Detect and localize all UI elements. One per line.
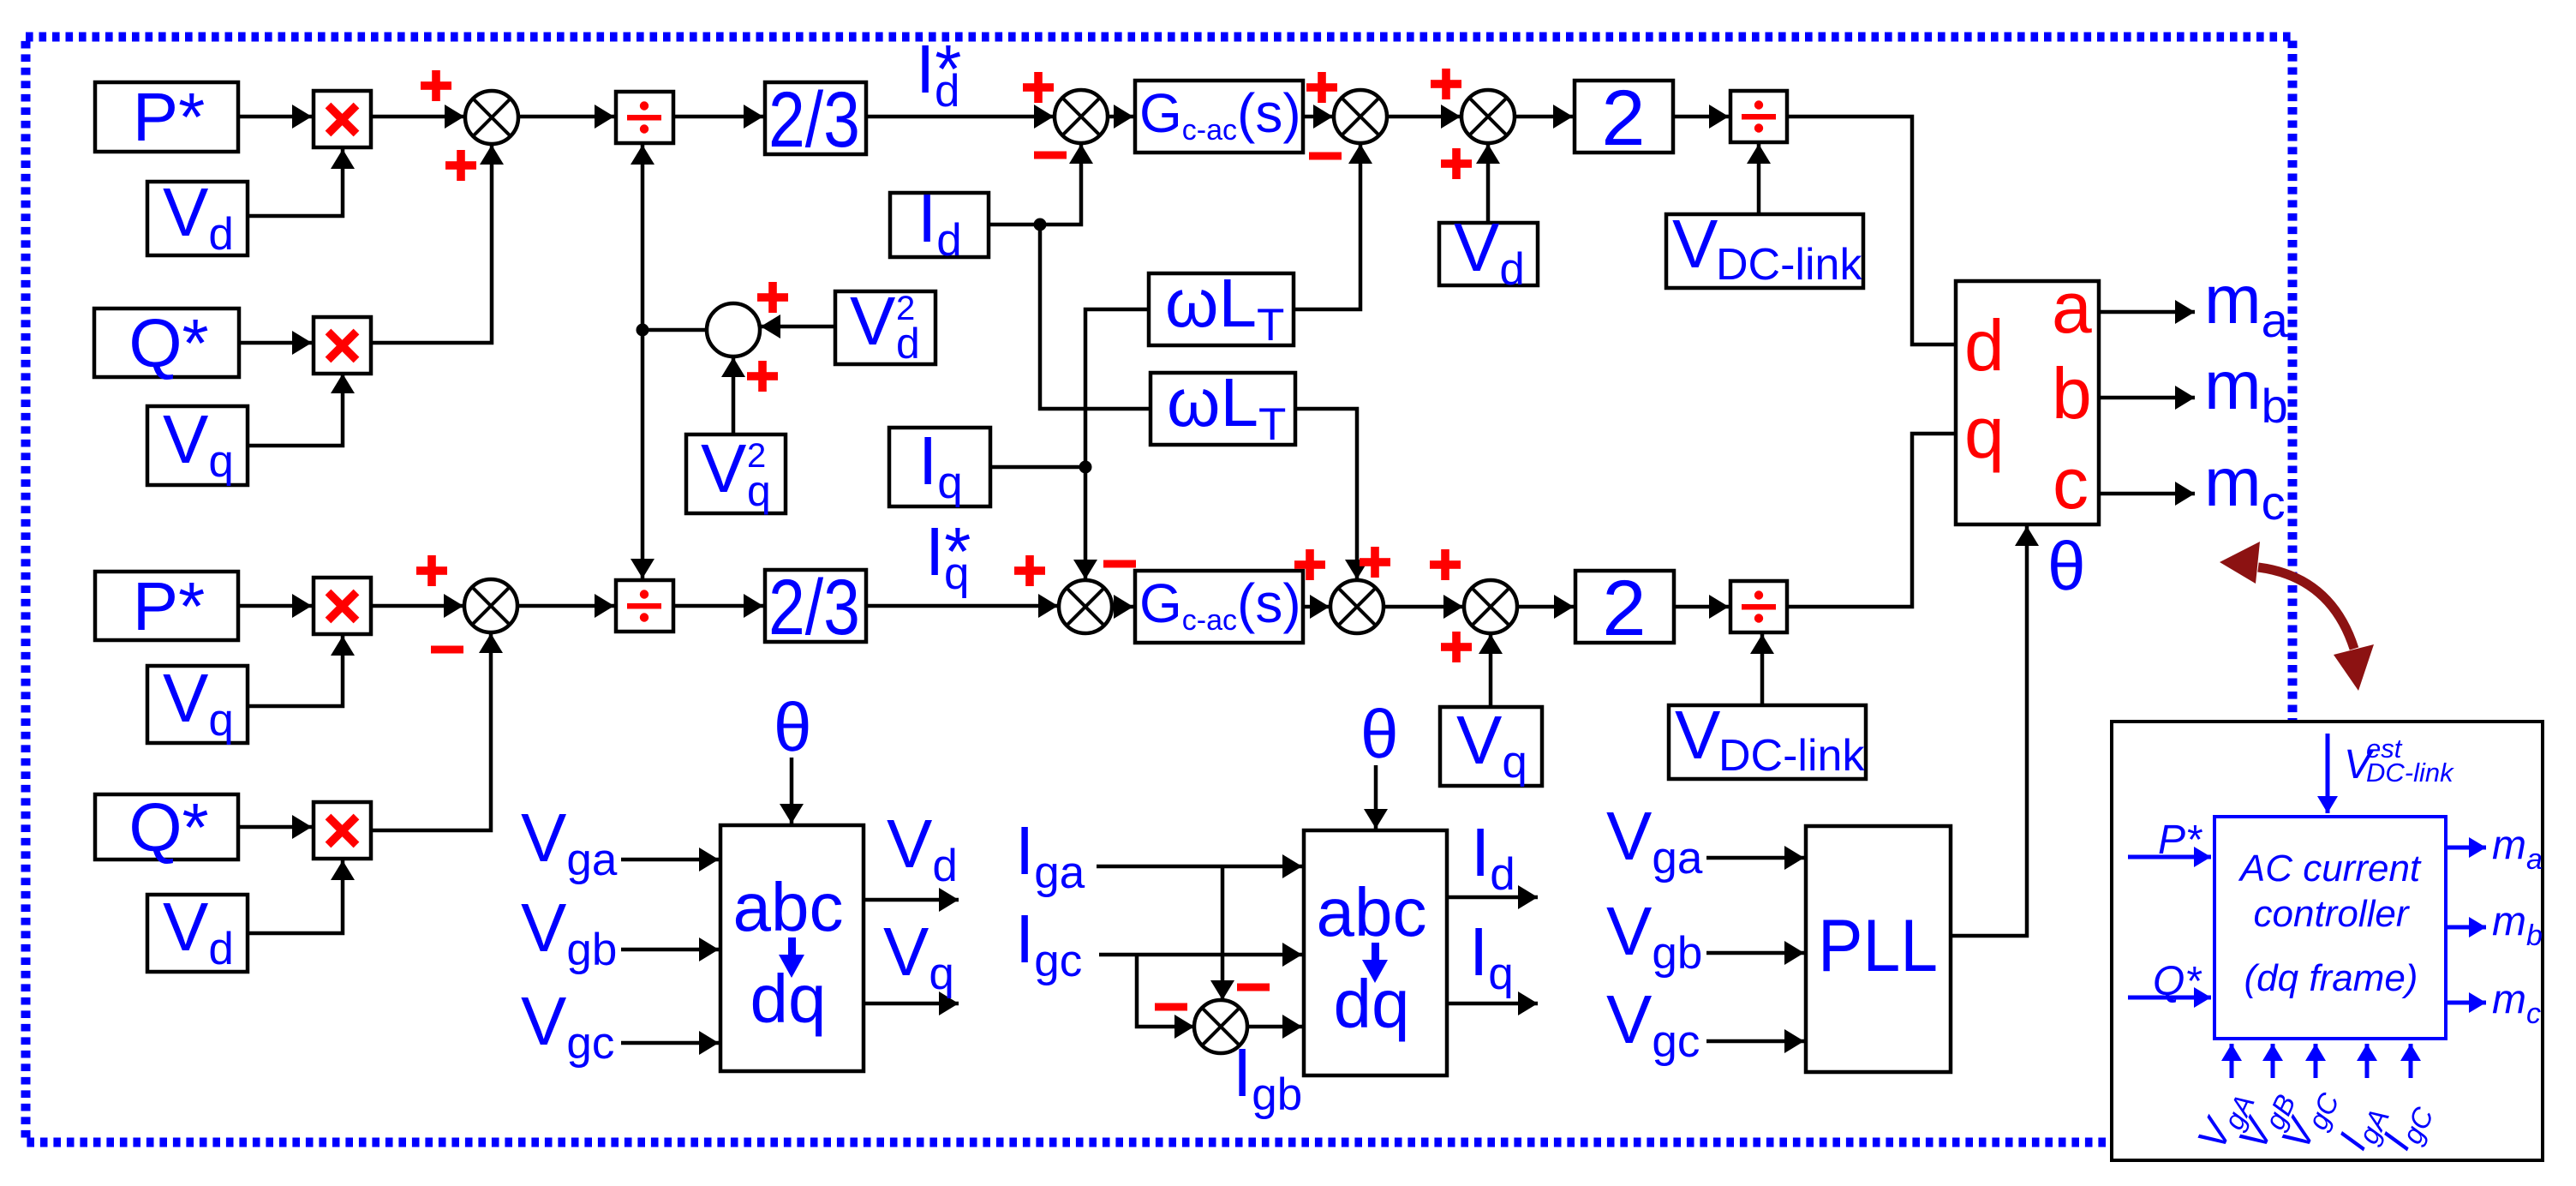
block mult1 (314, 91, 371, 147)
wire gain2b to div4 (1674, 605, 1729, 609)
plus sign sumV2 right bottom (747, 361, 778, 392)
svg-text:2/3: 2/3 (768, 76, 860, 164)
wire theta1 into abcdq1 top (790, 758, 794, 824)
block div3 (616, 580, 673, 632)
wire Q*1 to mult2 (239, 341, 312, 345)
block Vq2 (147, 666, 248, 743)
block VDC1 (1666, 214, 1863, 288)
svg-text:d: d (935, 66, 959, 117)
arrow IgC up (2409, 1044, 2413, 1078)
wire sumV2 junction up to div1 bottom (641, 145, 645, 330)
minus sign sum6 top right (1103, 560, 1136, 568)
plus sign sum6 left (1014, 555, 1045, 586)
wire Iq junction down to sum6 top (1084, 467, 1088, 579)
wire Vd2 up to sum4 bottom (1486, 144, 1491, 223)
summing circle sum4 (1461, 90, 1515, 143)
svg-text:b: b (2052, 353, 2092, 434)
block Vd2 (1439, 223, 1538, 285)
svg-text:Q*: Q* (129, 305, 208, 381)
wire Vd2sq to sumV2 (761, 325, 835, 329)
red divide sign in div2 (1742, 100, 1776, 132)
wire Vq2sq up to sumV2 bottom (732, 357, 736, 434)
svg-text:q: q (747, 467, 771, 515)
wire sum1 to div1 (517, 115, 614, 119)
arrow Vdc est into inner box (2326, 734, 2330, 813)
summing circle sum8 (1464, 580, 1517, 633)
block wLT1 (1149, 273, 1294, 345)
wire dq c output to mc (2099, 492, 2195, 496)
svg-text:PLL: PLL (1818, 905, 1938, 987)
plus sign sum7 left (1294, 549, 1325, 580)
block Q*1 (94, 308, 239, 377)
summing circle sum6 (1059, 580, 1112, 633)
summing circle sum7 (1330, 580, 1384, 633)
red multiply sign in mult1 (328, 105, 356, 134)
summary inner blue box (2214, 817, 2446, 1039)
wire wLT1 to sum3 bottom (1294, 144, 1360, 309)
red letters in dq block (1964, 267, 2092, 524)
arrow P* into inner box (2128, 855, 2211, 860)
wire sum2 to G1 (1107, 115, 1133, 119)
arrow mb out (2446, 925, 2486, 930)
svg-text:DC-link: DC-link (2366, 758, 2454, 788)
svg-text:θ: θ (1360, 696, 1399, 772)
wire mult4 to sum5 bottom (371, 633, 491, 830)
wire sumV2 junction down to div3 top (641, 330, 645, 578)
arrow mc out (2446, 1001, 2486, 1005)
block Q*2 (95, 794, 238, 860)
wire Iga branch down to Igb circle top (1221, 866, 1225, 1000)
svg-text:dq: dq (1334, 966, 1410, 1042)
wire sum4 to gain2a (1514, 115, 1573, 119)
wire Vq3 up to sum8 bottom (1489, 634, 1493, 707)
plus sign sum5 top (416, 555, 447, 586)
svg-text:q: q (944, 548, 969, 599)
svg-text:c: c (2053, 443, 2089, 524)
wire Vd3 to mult4 bottom (248, 860, 343, 933)
block abcdq2 (1304, 830, 1447, 1075)
minus sign Igb top input (1237, 984, 1270, 991)
wire dq b output to mb (2099, 396, 2195, 400)
BOXES (94, 81, 2099, 1075)
block abcdq1 (720, 825, 864, 1071)
plus sign sumV2 right top (757, 282, 788, 313)
wire div2 to dq block d input (1787, 117, 1956, 344)
svg-text:DC-link: DC-link (1716, 240, 1862, 290)
svg-text:θ: θ (774, 689, 812, 765)
minus sign Igb left input (1155, 1003, 1187, 1011)
block G2 (1135, 571, 1303, 643)
svg-text:P*: P* (133, 568, 206, 644)
svg-text:controller: controller (2254, 893, 2411, 935)
plus sign sum4 top (1431, 69, 1461, 99)
red multiply sign in mult2 (328, 332, 356, 360)
block VDC2 (1669, 705, 1866, 779)
wire div1 to gain23a (673, 115, 763, 119)
plus sign sum4 bottom (1441, 148, 1472, 179)
svg-text:dq: dq (750, 961, 827, 1037)
summing circle sum5 (464, 579, 517, 632)
summing circle Igb (1194, 1000, 1247, 1053)
wire Igb circle to abcdq2 (1246, 1025, 1302, 1029)
block PLL (1806, 826, 1951, 1072)
svg-text:q: q (1964, 392, 2005, 473)
wire Iga to abcdq2 (1097, 865, 1302, 869)
svg-text:2/3: 2/3 (768, 564, 860, 651)
block gain23a (765, 82, 866, 154)
wire Vgb to abcdq1 (621, 948, 719, 952)
block G1 (1135, 81, 1303, 153)
wire Q*2 to mult4 (238, 825, 312, 830)
svg-text:2: 2 (1602, 565, 1646, 652)
red multiply sign in mult3 (328, 592, 356, 620)
block div2 (1730, 91, 1787, 142)
block gain2a (1575, 81, 1673, 153)
junction node on divider feed line (637, 324, 649, 337)
svg-text:V: V (850, 283, 896, 359)
block Iq (889, 428, 990, 506)
wire abcdq2 Id output (1447, 895, 1538, 900)
red divide sign in div4 (1742, 590, 1776, 622)
wire VDC1 up to div2 bottom (1757, 144, 1761, 214)
wire Vd1 to mult1 bottom (248, 149, 343, 216)
svg-text:V: V (1675, 697, 1721, 773)
svg-text:AC current: AC current (2238, 848, 2422, 889)
block gain23b (765, 570, 866, 642)
svg-text:θ: θ (2047, 528, 2086, 604)
wire gain23b to sum6 (Iq* path) (866, 604, 1058, 608)
wire P*1 to mult1 (238, 115, 312, 119)
block P*2 (95, 572, 238, 640)
wire Id box to sum2 bottom (989, 144, 1081, 225)
red divide sign in div1 (627, 101, 661, 133)
plus sign sum1 bottom (445, 150, 476, 181)
wire abcdq1 Vq output (864, 1002, 959, 1006)
junction node on Id line (1034, 219, 1047, 231)
svg-text:DC-link: DC-link (1718, 731, 1865, 781)
block Vd squared (835, 291, 935, 364)
wire Id junction down to wLT2 (1040, 225, 1151, 409)
wire Vgc to PLL (1706, 1039, 1804, 1044)
wire gain23a to sum2 (Id* path) (866, 115, 1054, 119)
block dq transform (1956, 281, 2099, 524)
block gain2b (1575, 571, 1674, 643)
wire Vq1 to mult2 bottom (248, 374, 343, 446)
arrow VgB up (2271, 1044, 2275, 1078)
wire G1 to sum3 (1303, 115, 1333, 119)
wire dq a output to ma (2099, 310, 2195, 314)
summing circle sum1 (465, 91, 518, 144)
block mult3 (314, 578, 371, 634)
arrow VgA up (2230, 1044, 2234, 1078)
block div4 (1730, 581, 1787, 632)
wire Igc to abcdq2 (1099, 953, 1302, 957)
wire sum8 to gain2b (1516, 605, 1574, 609)
wire G2 to sum7 (1303, 605, 1330, 609)
block P*1 (95, 82, 238, 152)
wire sum6 to G2 (1111, 605, 1133, 609)
block Vq3 (1440, 707, 1542, 786)
block mult2 (314, 317, 371, 374)
summing circle sum3 (1334, 90, 1387, 143)
block wLT2 (1151, 373, 1295, 445)
svg-text:d: d (896, 320, 920, 368)
svg-text:V: V (701, 430, 747, 506)
red divide sign in div3 (627, 590, 661, 621)
svg-text:abc: abc (1317, 874, 1427, 950)
svg-text:2: 2 (1601, 75, 1645, 162)
wire sum3 to sum4 (1386, 115, 1461, 119)
junction node on Iq line (1079, 461, 1092, 474)
svg-text:a: a (2052, 267, 2092, 348)
wire div4 to dq block q input (1787, 434, 1956, 607)
wire div3 to gain23b (673, 604, 763, 608)
wire Iq box to junction (990, 465, 1085, 470)
svg-text:Q*: Q* (2153, 959, 2202, 1004)
plus sign sum8 left (1430, 549, 1461, 580)
wire Vgb to PLL (1706, 951, 1804, 955)
block Vd3 (147, 895, 248, 972)
wire abcdq1 Vd output (864, 898, 959, 902)
red multiply sign in mult4 (328, 817, 356, 845)
wire sum7 to sum8 (1383, 605, 1463, 609)
svg-text:P*: P* (2158, 818, 2202, 863)
wire PLL output theta to dq bottom (1951, 526, 2027, 936)
wire sumV2 circle to junction (643, 328, 708, 332)
svg-text:d: d (1964, 305, 2005, 386)
svg-text:V: V (1672, 206, 1718, 282)
wire theta2 into abcdq2 top (1374, 765, 1378, 829)
arrow IgA up (2365, 1044, 2370, 1078)
plus sign sum2 top (1023, 72, 1054, 103)
wire abcdq2 Iq output (1447, 1002, 1538, 1006)
summary outer box (2112, 722, 2543, 1160)
minus sign sum3 bottom (1309, 153, 1342, 160)
summing circle sumV2 (open) (707, 303, 760, 356)
wire gain2a to div2 (1673, 115, 1729, 119)
plus sign sum3 top (1306, 72, 1337, 103)
block div1 (616, 92, 673, 143)
wire Vga to PLL (1706, 856, 1804, 860)
plus sign sum7 right (1360, 547, 1390, 578)
minus sign sum5 bottom (431, 646, 463, 654)
summing circle sum2 (1055, 90, 1108, 143)
svg-text:Q*: Q* (129, 789, 208, 866)
block mult4 (314, 802, 371, 859)
block Vd1 (147, 182, 248, 255)
block Vq1 (147, 406, 248, 485)
block Vq squared (686, 434, 786, 513)
svg-text:abc: abc (733, 869, 844, 945)
arrow Q* into inner box (2128, 996, 2211, 1000)
minus sign sum2 bottom (1034, 152, 1067, 159)
wire Igc branch down to Igb circle left (1137, 955, 1194, 1027)
arrow ma out (2446, 846, 2486, 850)
block Id (890, 193, 989, 257)
svg-text:(dq frame): (dq frame) (2244, 957, 2418, 999)
svg-text:P*: P* (133, 79, 206, 155)
wire sum5 to div3 (517, 604, 614, 608)
wire Vga to abcdq1 (621, 858, 719, 862)
plus sign sum1 top (421, 70, 451, 101)
blue arrow abc to dq block1 (779, 937, 804, 978)
wire mult2 to sum1 bottom (371, 145, 492, 343)
wire mult1 to sum1 (371, 115, 464, 119)
wire wLT2 to sum7 top (1295, 409, 1357, 579)
wire Vgc to abcdq1 (621, 1041, 719, 1045)
wire VDC2 up to div4 bottom (1760, 634, 1765, 705)
plus sign sum8 bottom (1441, 632, 1472, 662)
blue arrow abc to dq block2 (1362, 943, 1388, 983)
wire P*2 to mult3 (238, 604, 312, 608)
wire Iq junction up to wLT1 (1085, 309, 1149, 467)
arrow VgC up (2314, 1044, 2318, 1078)
wire mult3 to sum5 (371, 604, 463, 608)
wire Vq2 to mult3 bottom (248, 636, 343, 706)
maroon curved double arrow (2220, 542, 2374, 691)
